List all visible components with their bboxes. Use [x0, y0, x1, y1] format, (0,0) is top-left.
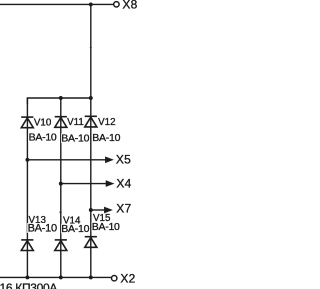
svg-text:BA-10: BA-10 [28, 222, 57, 234]
svg-text:16 КП300А: 16 КП300А [0, 281, 57, 289]
node scan speck on feed wire [90, 46, 92, 48]
terminal X2 [112, 276, 117, 281]
node junction V11 top [59, 96, 63, 100]
arrow X4 [106, 181, 114, 187]
svg-text:V12: V12 [98, 117, 115, 128]
label BA-10 of V10 [28, 132, 57, 144]
diode V14 [55, 240, 67, 251]
diode V11 [55, 117, 67, 128]
node junction X5 [25, 158, 29, 162]
wire column 1 [26, 98, 28, 277]
svg-text:BA-10: BA-10 [92, 221, 120, 233]
svg-text:V10: V10 [34, 117, 52, 128]
wire X4 line [61, 183, 107, 185]
diode V10 [21, 117, 33, 128]
label BA-10 of V13 [27, 222, 58, 234]
node junction X4 [59, 182, 63, 186]
svg-text:V11: V11 [67, 117, 84, 128]
diode V12 [85, 116, 97, 127]
wire bottom anode bus to X2 [0, 276, 111, 278]
label BA-10 of V12 [92, 132, 121, 144]
svg-text:BA-10: BA-10 [61, 223, 89, 235]
wire column 2 [60, 98, 62, 277]
wire vertical feed from X8 bus [90, 4, 92, 98]
label BA-10 of V14 [61, 223, 90, 235]
node junction V13 bottom [25, 275, 29, 279]
node scan speck on column 2 [59, 211, 61, 213]
wire top bus to X8 [0, 3, 113, 5]
svg-text:X2: X2 [120, 271, 135, 285]
svg-text:BA-10: BA-10 [29, 132, 57, 144]
node junction top feed [89, 2, 93, 6]
node junction X7 [89, 208, 93, 212]
diode V15 [85, 237, 97, 248]
label BA-10 of V15 [91, 221, 120, 233]
wire top cathode bus [27, 98, 90, 104]
label BA-10 of V11 [61, 132, 90, 144]
svg-text:X4: X4 [116, 177, 131, 191]
svg-text:BA-10: BA-10 [61, 132, 89, 144]
diode V13 [21, 240, 33, 251]
node junction V14 bottom [59, 275, 63, 279]
wire X7 line [91, 209, 105, 211]
arrow X5 [105, 157, 113, 163]
svg-text:BA-10: BA-10 [92, 132, 120, 144]
svg-text:X5: X5 [116, 152, 131, 166]
arrow X7 [104, 207, 112, 213]
wire X5 line [27, 159, 106, 161]
node junction V15 bottom [89, 275, 93, 279]
terminal X8 [114, 2, 119, 7]
node junction V12 top [89, 96, 93, 100]
wire column 3 [90, 98, 92, 277]
svg-text:X7: X7 [116, 202, 131, 216]
svg-text:X8: X8 [122, 0, 137, 12]
